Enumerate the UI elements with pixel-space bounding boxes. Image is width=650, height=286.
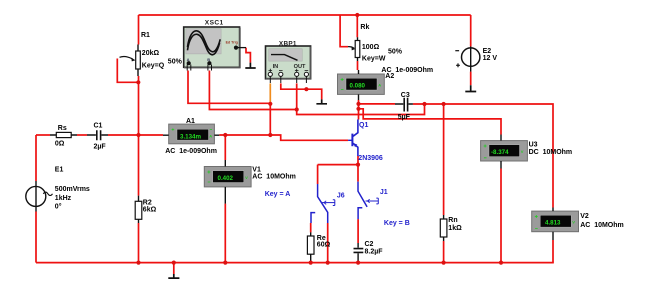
- wire A2 bottom to Q1 collector: [358, 100, 360, 120]
- junction rail-J6: [326, 261, 330, 265]
- wire E1 vertical bottom: [35, 212, 37, 263]
- junction rail-C2: [356, 261, 360, 265]
- junction output-OUT+: [422, 102, 426, 106]
- svg-text:Rk: Rk: [360, 24, 369, 31]
- wire Q1 emitter down: [357, 156, 359, 165]
- svg-text:8.2µF: 8.2µF: [365, 248, 384, 255]
- svg-text:0Ω: 0Ω: [55, 141, 65, 148]
- svg-text:B: B: [207, 57, 210, 62]
- svg-text:2µF: 2µF: [94, 144, 107, 151]
- junction input-R2: [136, 133, 140, 137]
- svg-text:Rn: Rn: [448, 217, 457, 224]
- svg-text:Key=Q: Key=Q: [142, 63, 165, 70]
- ammeter A1: [163, 124, 219, 144]
- svg-text:Q1: Q1: [359, 122, 368, 129]
- voltmeter U3: [481, 135, 528, 169]
- svg-text:A: A: [187, 57, 190, 62]
- junction scopeB-OUT+: [295, 107, 299, 111]
- wire V2 bottom: [552, 240, 554, 263]
- svg-text:V1: V1: [252, 166, 261, 173]
- svg-text:J1: J1: [380, 189, 388, 196]
- svg-text:A1: A1: [186, 118, 195, 125]
- wire collector to C3 left: [359, 103, 396, 105]
- svg-text:2N3906: 2N3906: [358, 155, 383, 162]
- transistor Q1: [348, 120, 358, 157]
- junction rail-Rk: [355, 13, 359, 17]
- wire C3 right to V2: [413, 104, 553, 208]
- wire J6 to Re: [310, 223, 312, 232]
- wire bode IN+ to input node: [269, 104, 271, 135]
- wire E1 vertical top: [35, 135, 37, 181]
- svg-text:5µF: 5µF: [398, 114, 411, 121]
- wire V1 bottom: [224, 204, 226, 263]
- svg-text:1kHz: 1kHz: [55, 195, 72, 202]
- junction rail-V1: [223, 261, 227, 265]
- bode plotter XBP1: [266, 46, 311, 83]
- svg-text:Rs: Rs: [58, 125, 67, 132]
- svg-text:OUT: OUT: [294, 64, 306, 70]
- svg-text:6kΩ: 6kΩ: [143, 207, 157, 214]
- junction emitter-J6-J1: [356, 163, 360, 167]
- svg-text:100Ω: 100Ω: [362, 44, 380, 51]
- svg-text:Key = B: Key = B: [384, 220, 410, 227]
- svg-text:4.813: 4.813: [545, 220, 561, 227]
- svg-text:12 V: 12 V: [483, 55, 498, 62]
- capacitor C2: [354, 243, 364, 263]
- svg-text:E1: E1: [55, 167, 64, 174]
- wire R2 bottom: [138, 223, 140, 263]
- junction scopeA-IN+: [268, 102, 272, 106]
- svg-text:3.134m: 3.134m: [180, 134, 201, 141]
- svg-text:V: V: [572, 220, 575, 225]
- svg-text:AC 10MOhm: AC 10MOhm: [252, 174, 296, 181]
- wire bode OUT+ to output: [297, 83, 425, 114]
- resistor Rn: [440, 215, 447, 241]
- svg-text:50%: 50%: [388, 49, 403, 56]
- wire scope trigger to ground: [246, 48, 250, 63]
- wire J6 top: [317, 165, 319, 184]
- wire V1 top: [224, 135, 226, 160]
- wire A1 to base step: [219, 135, 348, 140]
- wire scope channel A: [188, 71, 270, 104]
- potentiometer Rk: [348, 37, 360, 61]
- oscilloscope XSC1: [184, 27, 246, 71]
- svg-text:XBP1: XBP1: [279, 40, 297, 47]
- wire collector branch to U3: [359, 109, 502, 135]
- resistor R2: [135, 196, 142, 223]
- ac source E1: [26, 181, 53, 212]
- wire J1 to C2: [357, 219, 359, 243]
- wire J1 top: [357, 165, 359, 182]
- wire Rk top: [356, 15, 358, 37]
- capacitor C1: [87, 130, 108, 140]
- svg-text:0°: 0°: [55, 202, 62, 210]
- voltmeter V1: [204, 160, 251, 204]
- junction rail-Re: [309, 261, 313, 265]
- junction rail-Rn: [442, 261, 446, 265]
- svg-text:V: V: [521, 149, 524, 154]
- svg-text:0.080: 0.080: [350, 83, 366, 90]
- svg-text:Key = A: Key = A: [265, 191, 291, 198]
- svg-text:A: A: [378, 83, 381, 88]
- capacitor C3: [395, 98, 413, 112]
- wire bode IN- to ground: [281, 83, 322, 99]
- svg-text:V2: V2: [580, 213, 589, 220]
- wire U3 bottom: [500, 169, 502, 263]
- svg-text:J6: J6: [337, 192, 345, 199]
- wire output to Rn: [443, 104, 445, 215]
- wire Rs to C1: [77, 134, 87, 136]
- svg-text:1kΩ: 1kΩ: [448, 225, 462, 232]
- svg-text:V: V: [245, 175, 248, 180]
- svg-text:AC 10MOhm: AC 10MOhm: [580, 222, 624, 229]
- svg-text:20kΩ: 20kΩ: [142, 50, 160, 57]
- ground at scope trigger: [245, 63, 255, 68]
- wire bottom rail: [36, 262, 554, 264]
- junction input-probe: [268, 133, 272, 137]
- junction input-V1: [223, 133, 227, 137]
- switch J1: [358, 182, 378, 220]
- wire E2 bottom: [470, 72, 472, 86]
- ammeter A2: [338, 70, 385, 100]
- orange wire bode IN+: [269, 83, 271, 103]
- svg-text:DC 10MOhm: DC 10MOhm: [529, 149, 573, 156]
- svg-text:50%: 50%: [168, 58, 183, 65]
- wire top rail: [139, 14, 471, 16]
- svg-text:60Ω: 60Ω: [317, 241, 331, 248]
- junction IN- OUT-: [304, 87, 308, 91]
- svg-text:500mVrms: 500mVrms: [55, 186, 90, 193]
- wire ground stem bottom: [173, 263, 175, 274]
- wire E1 top to Rs: [36, 134, 50, 136]
- svg-text:AC 1e-009Ohm: AC 1e-009Ohm: [165, 148, 217, 155]
- wire R2 top: [138, 135, 140, 196]
- svg-text:C3: C3: [401, 92, 410, 99]
- junction rail-R2: [136, 261, 140, 265]
- wire R1 wiper loop: [117, 59, 138, 83]
- wire Rk bottom to A2: [357, 61, 359, 70]
- svg-text:U3: U3: [529, 141, 538, 148]
- junction output-Rn: [442, 102, 446, 106]
- svg-text:Key=W: Key=W: [362, 55, 386, 62]
- svg-text:R1: R1: [141, 32, 150, 39]
- junction collector-U3: [356, 107, 360, 111]
- svg-text:Ed Trig: Ed Trig: [226, 40, 238, 44]
- svg-text:0.402: 0.402: [218, 175, 234, 182]
- potentiometer R1: [120, 45, 141, 77]
- wire Rn bottom: [443, 241, 445, 263]
- wire scope channel B: [209, 71, 296, 110]
- junction rail-U3: [499, 261, 503, 265]
- wire Rk wiper loop: [340, 15, 348, 47]
- svg-text:XSC1: XSC1: [205, 20, 224, 27]
- svg-text:C1: C1: [94, 122, 103, 129]
- dc source E2: [455, 47, 480, 72]
- wire E2 top: [470, 15, 472, 47]
- svg-text:A2: A2: [385, 73, 394, 80]
- resistor Rs: [50, 132, 77, 137]
- wire R1 bottom to input node: [138, 76, 140, 135]
- ground at bode plotter: [316, 99, 327, 103]
- wire R1 top to rail: [138, 15, 140, 45]
- svg-text:C2: C2: [365, 241, 374, 248]
- ground at E2: [465, 85, 476, 91]
- voltmeter V2: [532, 208, 579, 241]
- wire emitter node horizontal: [318, 164, 358, 166]
- svg-text:IN: IN: [273, 64, 279, 70]
- wire J6 blade end to rail: [327, 223, 329, 263]
- ground at bottom rail: [168, 274, 179, 278]
- svg-text:A: A: [209, 134, 212, 139]
- wire C1 to A1: [108, 134, 163, 136]
- resistor Re: [307, 232, 314, 262]
- svg-text:-8.374: -8.374: [491, 149, 509, 156]
- junction rail-ground: [172, 261, 176, 265]
- junction collector-C3: [356, 102, 360, 106]
- switch J6: [311, 184, 335, 223]
- svg-text:R2: R2: [143, 199, 152, 206]
- junction R1 wiper: [136, 80, 140, 84]
